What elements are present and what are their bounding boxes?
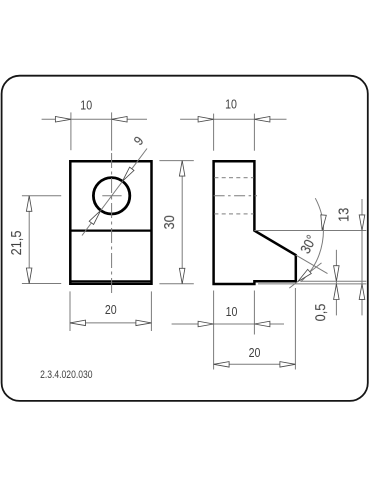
arrow 20 side right [280,362,296,368]
svg-text:30: 30 [160,215,177,229]
hidden hole line bottom [214,213,253,215]
angle dim arc 30deg [301,198,324,282]
hidden hole line top [214,177,253,179]
ext line 20 front left [69,291,71,331]
arrow 10 side-bottom left [198,321,214,327]
arrow d9 upper [123,167,135,181]
ext line front top-left [70,112,72,150]
ext line 30 top [159,160,193,162]
front view outline [70,161,151,283]
arrow 0,5 bottom [334,284,340,300]
arrow 20 front right [136,320,152,326]
ext line side top-right [253,114,255,151]
arrow 21,5 bottom [26,268,32,284]
hole circle d9 [93,178,129,214]
leader line d9 [82,149,147,236]
ext line from slope corner [254,230,366,232]
svg-text:10: 10 [225,97,237,111]
svg-text:20: 20 [249,346,261,360]
svg-text:20: 20 [105,303,117,317]
angle arrow lower tail [289,263,321,288]
svg-text:30°: 30° [297,232,320,256]
svg-text:2.3.4.020.030: 2.3.4.020.030 [40,369,93,381]
ext line front centre (top) [111,112,113,150]
arrow d9 lower [89,210,101,224]
arrow 10 side right [254,117,270,123]
arrow 21,5 top [26,196,32,212]
ext line side bottom-right [294,288,296,370]
svg-text:9: 9 [130,133,147,148]
dim line 20 side [214,363,296,365]
ext line 20 front right [150,291,152,331]
slope extension line [296,255,328,274]
svg-text:0,5: 0,5 [311,303,328,321]
ext line side bottom-left [213,291,215,370]
svg-text:21,5: 21,5 [7,230,24,255]
dim line 10 (side top) [180,118,286,120]
dim line 10 side bottom [172,323,284,325]
dim line 0,5 [335,250,337,316]
drawing sheet border [2,76,368,401]
svg-text:13: 13 [334,207,351,221]
dim line 30 [181,161,183,284]
front view vertical centerline [111,153,113,293]
dim line 13 [361,199,363,315]
dim line 10 (front) [42,118,147,120]
arrow 10 side left [198,117,214,123]
arrow 10 side-bottom right [254,321,270,327]
ext line lower bottom [258,283,366,285]
ext line 21,5 top [22,195,61,197]
svg-text:10: 10 [226,305,238,319]
angle arrow lower [298,269,312,281]
dim line 21,5 [28,196,30,284]
arrow 20 side left [214,362,230,368]
arrow 30 bottom [179,268,185,284]
side view hole centerline [214,195,257,197]
ext line upper bottom [301,280,367,282]
side view outline [214,161,296,284]
ext line 30 bottom [159,283,193,285]
arrow 20 front left [70,320,86,326]
arrow 0,5 top [334,266,340,282]
arrow 10 front right [112,117,128,123]
arrow 10 front left [55,117,71,123]
arrow 13 top [359,215,365,231]
front view slope top edge [70,230,151,232]
ext line side bottom-mid [253,291,255,335]
angle arrow upper [321,215,327,231]
arrow 30 top [179,161,185,177]
arrow 13 bottom [359,284,365,300]
hole horizontal centerline [102,195,121,197]
ext line side top-left [213,114,215,151]
ext line 21,5 bottom [22,283,61,285]
dim line 20 front [70,322,151,324]
front view step edge (0,5) [70,280,151,282]
svg-text:10: 10 [80,99,92,113]
